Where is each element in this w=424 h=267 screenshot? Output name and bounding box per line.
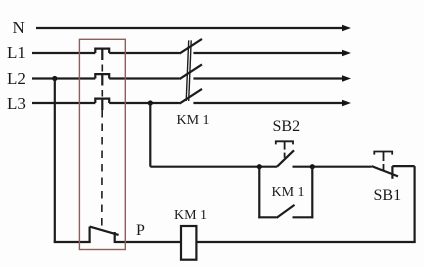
pushbutton SB2 actuator bbox=[276, 141, 293, 144]
contactor KM1 main contact L1 moving blade bbox=[180, 39, 203, 54]
wire L1 left segment bbox=[32, 52, 95, 54]
svg-text:KM 1: KM 1 bbox=[177, 113, 210, 128]
wire L2 middle segment bbox=[109, 77, 179, 79]
wire L3 middle segment bbox=[109, 102, 179, 104]
wire aux branch bottom left segment bbox=[258, 216, 276, 218]
contactor KM1 auxiliary contact blade bbox=[277, 205, 295, 218]
junction dot parallel branch right bbox=[310, 164, 315, 169]
svg-text:KM 1: KM 1 bbox=[272, 185, 305, 200]
breaker QF pole L1 bump bbox=[95, 49, 109, 53]
protector P right post bbox=[114, 232, 116, 243]
svg-text:L3: L3 bbox=[7, 94, 26, 113]
wire L2 right segment bbox=[193, 77, 343, 79]
wire aux branch left vertical bbox=[258, 167, 260, 219]
pushbutton SB2 label bbox=[273, 118, 301, 135]
contactor KM1 linkage bars bbox=[186, 40, 191, 101]
svg-text:KM 1: KM 1 bbox=[174, 208, 207, 223]
wire L1 middle segment bbox=[109, 52, 179, 54]
wire left vertical from L2 to bottom bbox=[54, 79, 56, 244]
wire bottom from protector to coil bbox=[115, 241, 181, 243]
junction dot parallel branch left bbox=[257, 164, 262, 169]
junction dot on L3 bbox=[148, 100, 153, 105]
wire N line bbox=[36, 27, 343, 29]
pushbutton SB1 actuator bbox=[374, 152, 392, 155]
contactor KM1 main contact L2 moving blade bbox=[180, 64, 203, 79]
svg-text:N: N bbox=[13, 18, 25, 37]
wire L2 arrowhead bbox=[342, 75, 351, 81]
wire right vertical down bbox=[414, 166, 416, 243]
wire SB1 right segment bbox=[392, 165, 414, 167]
wire L3 left segment bbox=[32, 102, 95, 104]
breaker QF pole L2 tick bbox=[101, 74, 103, 85]
breaker QF pole L3 tick bbox=[101, 99, 103, 110]
junction dot on L2 bbox=[52, 76, 57, 81]
svg-text:L1: L1 bbox=[7, 43, 26, 62]
node L1 label bbox=[7, 43, 26, 62]
breaker QF pole L3 bump bbox=[95, 99, 109, 103]
wire SB2 to parallel-branch right node bbox=[293, 166, 372, 168]
wire aux branch bottom right segment bbox=[293, 216, 314, 218]
wire aux branch right vertical bbox=[311, 167, 313, 219]
node N label bbox=[13, 18, 25, 37]
node L2 label bbox=[7, 69, 26, 88]
pushbutton SB1 stem bbox=[383, 152, 385, 172]
wire L3 arrowhead bbox=[342, 100, 351, 106]
protector P left post bbox=[88, 227, 90, 243]
svg-text:L2: L2 bbox=[7, 69, 26, 88]
node L3 label bbox=[7, 94, 26, 113]
contactor KM1 main label bbox=[177, 113, 210, 128]
breaker QF red enclosure box bbox=[79, 39, 125, 249]
svg-text:SB1: SB1 bbox=[374, 187, 402, 204]
pushbutton SB2 NO contact blade bbox=[277, 150, 294, 166]
wire control drop from L3 bbox=[149, 103, 151, 167]
wire N arrowhead bbox=[342, 25, 351, 31]
pushbutton SB2 stem bbox=[284, 141, 286, 158]
wire bottom from left vertical to protector bbox=[54, 241, 91, 243]
wire L3 right segment bbox=[193, 102, 343, 104]
svg-text:SB2: SB2 bbox=[273, 118, 301, 135]
wire L1 right segment bbox=[193, 52, 343, 54]
svg-text:P: P bbox=[136, 222, 145, 239]
wire control horizontal to SB2 bbox=[150, 166, 277, 168]
wire bottom from coil to right vertical bbox=[196, 241, 415, 243]
pushbutton SB1 fixed contact stub bbox=[391, 166, 393, 179]
breaker QF pole L1 tick bbox=[101, 49, 103, 60]
pushbutton SB1 NC contact blade bbox=[372, 166, 398, 176]
wire L1 arrowhead bbox=[342, 50, 351, 56]
breaker QF linkage dashed line bbox=[101, 65, 104, 229]
contactor KM1 auxiliary label bbox=[272, 185, 305, 200]
breaker QF pole L2 bump bbox=[95, 74, 109, 78]
contactor KM1 coil label bbox=[174, 208, 207, 223]
protector P label bbox=[136, 222, 145, 239]
wire L2 left segment bbox=[32, 77, 95, 79]
contactor KM1 main contact L3 moving blade bbox=[180, 89, 203, 104]
protector P contact blade bbox=[90, 227, 119, 235]
contactor KM1 coil bbox=[181, 226, 196, 260]
pushbutton SB1 label bbox=[374, 187, 402, 204]
